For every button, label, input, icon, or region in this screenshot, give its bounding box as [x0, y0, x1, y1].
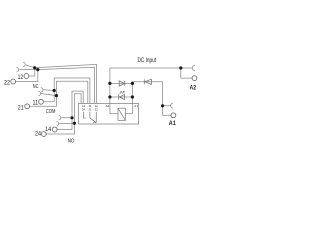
- svg-text:21: 21: [18, 105, 25, 111]
- svg-text:COM: COM: [46, 109, 56, 115]
- svg-text:11: 11: [33, 100, 39, 106]
- svg-text:NC: NC: [33, 84, 39, 90]
- svg-text:24: 24: [35, 132, 42, 138]
- svg-text:22: 22: [95, 107, 98, 111]
- svg-text:24: 24: [82, 107, 85, 111]
- svg-text:22: 22: [4, 80, 11, 86]
- svg-text:DC Input: DC Input: [138, 57, 157, 64]
- svg-text:21: 21: [89, 107, 92, 111]
- svg-text:12: 12: [18, 75, 24, 81]
- svg-text:A2: A2: [106, 104, 110, 108]
- svg-text:14: 14: [45, 127, 52, 133]
- svg-text:A1: A1: [169, 121, 177, 127]
- svg-text:NO: NO: [68, 138, 75, 144]
- svg-text:A1: A1: [134, 104, 138, 108]
- svg-text:A2: A2: [190, 86, 197, 92]
